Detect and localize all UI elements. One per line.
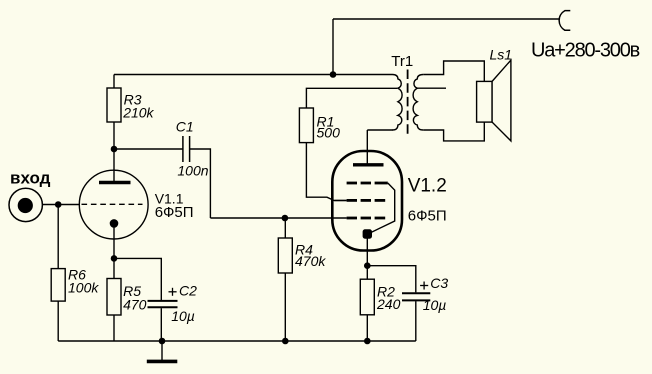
resistor R6 <box>51 267 99 302</box>
svg-text:C2: C2 <box>179 282 197 298</box>
tube V1.1 triode 6Ф5П <box>79 170 193 239</box>
wire HT rail from R3 top to transformer primary <box>114 74 393 76</box>
resistor R4 <box>278 238 326 273</box>
svg-text:Tr1: Tr1 <box>391 53 413 70</box>
core <box>407 70 409 135</box>
wire V1.2 anode lead <box>366 130 368 164</box>
resistor R3 <box>107 88 155 122</box>
transformer Tr1 <box>391 53 423 134</box>
wire R4 bottom lead <box>284 273 286 341</box>
wire ground stem <box>161 341 163 360</box>
svg-text:V1.2: V1.2 <box>408 175 447 196</box>
svg-text:100n: 100n <box>177 163 208 179</box>
wire V1.2 cathode lead <box>366 234 368 266</box>
node R2 bottom junction <box>364 338 371 345</box>
cathode dot <box>363 229 372 238</box>
node input junction <box>55 201 62 208</box>
wire input jack to grid node <box>33 204 80 206</box>
svg-text:вход: вход <box>10 168 51 187</box>
svg-text:Ls1: Ls1 <box>490 47 513 63</box>
g3 to cathode internal link <box>369 183 394 233</box>
node R5/C2 junction <box>111 255 118 262</box>
grid g3 dashes <box>347 182 388 185</box>
wire secondary unused tap <box>417 87 446 89</box>
wire R5 bottom lead <box>113 315 115 341</box>
svg-text:10µ: 10µ <box>423 297 447 313</box>
anode bar <box>99 181 131 184</box>
svg-text:100k: 100k <box>68 280 99 296</box>
node R4 top junction <box>282 215 289 222</box>
capacitor C1 <box>176 118 209 178</box>
speaker Ls1 <box>477 47 512 141</box>
node V1.2 cathode junction <box>364 262 371 269</box>
connector X1 Ua supply socket <box>559 11 570 31</box>
node ground junction <box>159 338 166 345</box>
wire C2 bottom lead <box>160 308 162 341</box>
svg-text:6Ф5П: 6Ф5П <box>155 204 194 221</box>
grid g2 dashes <box>347 199 386 202</box>
resistor R1 <box>299 108 340 143</box>
wire R3 top lead <box>113 75 115 89</box>
wire R6 top lead <box>57 205 59 269</box>
svg-text:6Ф5П: 6Ф5П <box>408 208 447 225</box>
wire HT riser to top rail <box>332 19 334 75</box>
wire R1 bottom lead to V1.2 grid g2 <box>306 143 346 201</box>
grid g1 dashes <box>347 217 386 220</box>
wire ground rail <box>58 340 416 342</box>
wire node A to C1 <box>114 148 183 150</box>
wire V1.1 cathode lead to R5 <box>113 223 115 278</box>
wire top supply rail <box>333 18 560 20</box>
svg-text:240: 240 <box>376 296 401 312</box>
wire C3 top branch <box>367 266 416 293</box>
node R3/anode junction <box>111 146 118 153</box>
wire R2 top lead <box>366 266 368 280</box>
wire C1/R4 node to V1.2 grid g1 <box>210 217 346 219</box>
connector XS input jack <box>9 168 51 221</box>
envelope <box>79 170 148 239</box>
svg-text:470: 470 <box>123 297 147 313</box>
svg-text:C1: C1 <box>176 118 194 134</box>
node R4 bottom junction <box>282 338 289 345</box>
cathode dot <box>110 219 119 228</box>
node HT riser junction <box>330 71 337 78</box>
wire C2 top branch <box>114 258 161 300</box>
svg-text:210k: 210k <box>122 105 154 121</box>
resistor R2 <box>360 279 400 315</box>
g2 entry stub <box>334 199 346 201</box>
grid dashed <box>82 203 143 205</box>
svg-text:470k: 470k <box>295 253 326 269</box>
wire secondary top to speaker <box>423 61 484 81</box>
ground <box>147 360 178 364</box>
resistor R5 <box>107 279 147 316</box>
wire R1 top lead to primary tap <box>306 88 397 108</box>
wire C1 right lead <box>190 149 211 218</box>
wire R6 bottom lead <box>57 301 59 341</box>
wire R3 bottom lead to V1.1 anode <box>113 122 115 183</box>
svg-text:10µ: 10µ <box>171 308 195 324</box>
anode bar <box>353 163 384 166</box>
wire C3 bottom lead <box>415 301 417 341</box>
tube V1.2 pentode 6Ф5П <box>332 151 446 251</box>
primary winding <box>393 75 403 131</box>
wire R4 top lead <box>284 218 286 238</box>
envelope <box>332 151 402 251</box>
capacitor C3 polarized <box>402 275 448 313</box>
svg-text:Ua+280-300в: Ua+280-300в <box>531 40 640 62</box>
wire R2 bottom lead <box>366 315 368 341</box>
capacitor C2 polarized <box>148 282 198 323</box>
svg-text:500: 500 <box>317 125 341 141</box>
wire secondary bottom to speaker <box>423 122 484 141</box>
secondary winding <box>413 75 423 131</box>
svg-text:C3: C3 <box>430 275 448 291</box>
wire primary bottom lead <box>367 129 393 131</box>
